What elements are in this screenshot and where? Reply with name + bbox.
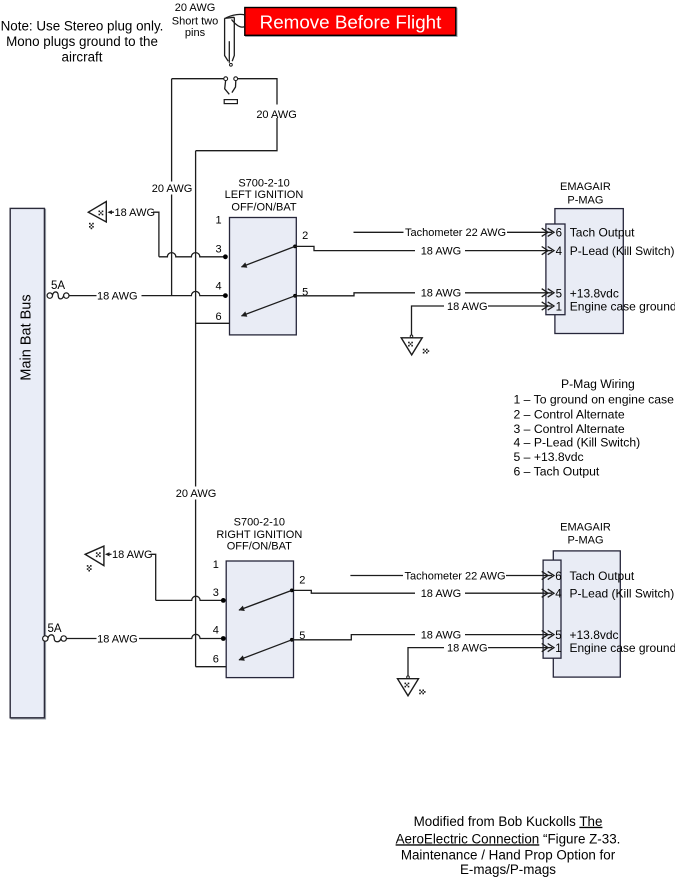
switch S2 pin numbers [213, 559, 306, 665]
svg-text:2: 2 [299, 575, 305, 587]
svg-text:LEFT IGNITION: LEFT IGNITION [225, 189, 304, 201]
svg-text:1: 1 [215, 214, 221, 226]
wire jack-left to vertical A [172, 78, 224, 80]
wire ground to U2 pin1 [408, 648, 444, 676]
U2 pin 1 arrows [542, 644, 554, 652]
svg-text:Tach Output: Tach Output [570, 569, 635, 583]
label 20 AWG (right of jack) [256, 105, 299, 121]
U1 pin 1 arrows [542, 302, 554, 310]
wire to S1 pin 3 with hops over A and B [159, 253, 226, 257]
svg-text:4: 4 [555, 588, 562, 600]
svg-text:18 AWG: 18 AWG [421, 630, 462, 642]
svg-text:Tachometer 22 AWG: Tachometer 22 AWG [405, 570, 506, 582]
svg-text:P-MAG: P-MAG [567, 535, 603, 547]
junction S2 pin 4 [221, 636, 226, 641]
U1 pin 6 arrows [542, 228, 554, 236]
svg-text:S700-2-10: S700-2-10 [238, 178, 289, 190]
wire to S2 pin 3 with hop over B [156, 596, 224, 600]
junction S1 pin 4 [223, 293, 228, 298]
wire vertical A [171, 79, 173, 296]
svg-text:Short two: Short two [172, 15, 218, 27]
Main Bat Bus [10, 208, 44, 717]
svg-text:pins: pins [185, 27, 206, 39]
firewall ground G1 [88, 202, 106, 230]
svg-text:4 – P-Lead (Kill Switch): 4 – P-Lead (Kill Switch) [514, 436, 641, 450]
svg-text:1 – To ground on engine case: 1 – To ground on engine case [514, 392, 675, 406]
svg-text:RIGHT IGNITION: RIGHT IGNITION [216, 529, 302, 541]
svg-text:P-MAG: P-MAG [567, 194, 603, 206]
switch S2 title [216, 516, 302, 552]
svg-text:18 AWG: 18 AWG [421, 588, 462, 600]
svg-text:20 AWG: 20 AWG [152, 183, 193, 195]
svg-text:18 AWG: 18 AWG [112, 549, 153, 561]
wire S2 pin5 to U2 pin5 [292, 635, 415, 640]
note text [1, 19, 164, 65]
wire F1 to S1 pin 4 [69, 295, 97, 297]
svg-text:Modified from Bob Kuckolls The: Modified from Bob Kuckolls The [414, 814, 603, 829]
jack J1 contacts [224, 77, 238, 104]
svg-text:5: 5 [556, 288, 562, 300]
svg-text:6 – Tach Output: 6 – Tach Output [514, 465, 600, 479]
svg-text:OFF/ON/BAT: OFF/ON/BAT [231, 201, 296, 213]
svg-text:Main Bat Bus: Main Bat Bus [18, 294, 34, 380]
svg-text:Note: Use Stereo plug only.: Note: Use Stereo plug only. [1, 19, 164, 34]
junction S2 pin 3 [221, 598, 226, 603]
svg-text:Engine case ground: Engine case ground [570, 299, 675, 313]
svg-text:4: 4 [556, 246, 563, 258]
svg-text:+13.8vdc: +13.8vdc [570, 628, 619, 642]
S1 pole 2-3 [293, 245, 297, 249]
svg-text:E-mags/P-mags: E-mags/P-mags [460, 862, 556, 877]
svg-text:6: 6 [556, 228, 562, 240]
svg-text:6: 6 [215, 311, 221, 323]
P-MAG U1 title [560, 181, 611, 206]
svg-text:aircraft: aircraft [62, 49, 103, 64]
svg-text:Maintenance / Hand Prop Option: Maintenance / Hand Prop Option for [401, 847, 616, 862]
svg-text:5A: 5A [47, 623, 61, 635]
svg-text:1: 1 [556, 301, 562, 313]
U1 pin 5 arrows [542, 289, 554, 297]
P-MAG U1 pin numbers [556, 228, 563, 314]
firewall ground G3 [85, 546, 104, 571]
svg-text:18 AWG: 18 AWG [421, 288, 462, 300]
svg-text:Tachometer 22 AWG: Tachometer 22 AWG [405, 227, 506, 239]
fuse F1 5A [47, 280, 69, 299]
wire hook from G3 to pin 3 (S2) [151, 554, 156, 600]
plug label [172, 2, 218, 39]
tachometer wire U2 pin6 [350, 575, 403, 577]
wire vertical B [195, 151, 197, 667]
svg-text:2 – Control Alternate: 2 – Control Alternate [514, 407, 625, 421]
junction S1 pin 3 [223, 254, 228, 259]
svg-text:5: 5 [302, 286, 308, 298]
svg-text:Engine case ground: Engine case ground [570, 641, 675, 655]
P-MAG U2 title [560, 521, 611, 546]
fuse F2 5A [43, 623, 67, 642]
svg-text:6: 6 [213, 653, 219, 665]
Remove Before Flight banner [245, 8, 456, 36]
svg-text:20 AWG: 20 AWG [175, 2, 216, 14]
tachometer wire U1 pin6 [354, 231, 404, 233]
U2 pin 4 arrows [542, 589, 554, 597]
svg-text:18 AWG: 18 AWG [447, 301, 488, 313]
svg-text:20 AWG: 20 AWG [256, 109, 297, 121]
svg-text:18 AWG: 18 AWG [421, 246, 462, 258]
firewall ground G4 (down) [398, 676, 426, 696]
wire hook from G1 to pin 3 (S1) [153, 212, 159, 257]
wire S1 pin5 to U1 pin5 [295, 293, 415, 296]
wire S2 pin2 to U2 pin4 [294, 590, 416, 593]
svg-text:18 AWG: 18 AWG [97, 633, 138, 645]
P-MAG U2 box [553, 551, 620, 677]
svg-text:EMAGAIR: EMAGAIR [560, 181, 611, 193]
svg-text:OFF/ON/BAT: OFF/ON/BAT [227, 541, 292, 553]
wire ground to U1 pin1 [412, 306, 445, 335]
svg-text:AeroElectric Connection “Figur: AeroElectric Connection “Figure Z-33. [396, 831, 621, 846]
svg-text:4: 4 [213, 624, 219, 636]
svg-text:18 AWG: 18 AWG [97, 291, 138, 303]
svg-text:3: 3 [213, 587, 219, 599]
svg-text:P-Mag Wiring: P-Mag Wiring [561, 377, 635, 391]
lanyard string [226, 14, 245, 17]
svg-text:Tach Output: Tach Output [570, 226, 635, 240]
svg-text:20 AWG: 20 AWG [176, 488, 217, 500]
P-MAG U2 connector [543, 560, 561, 658]
switch S1 pin numbers [215, 214, 308, 323]
svg-text:5A: 5A [51, 280, 65, 292]
U1 pin 4 arrows [542, 247, 554, 255]
wire S2 pin 6 from vertical B [196, 666, 227, 668]
svg-text:5 – +13.8vdc: 5 – +13.8vdc [514, 450, 584, 464]
P-MAG U1 connector [546, 224, 565, 315]
arrow into G3 [105, 552, 110, 556]
switch S1 box [230, 218, 297, 335]
svg-text:EMAGAIR: EMAGAIR [560, 521, 611, 533]
wire S1 pin 6 from vertical B [196, 322, 230, 324]
P-MAG U1 pin labels [570, 226, 675, 314]
P-MAG U2 pin numbers [555, 571, 562, 655]
svg-text:P-Lead (Kill Switch): P-Lead (Kill Switch) [570, 586, 675, 600]
svg-text:5: 5 [555, 630, 561, 642]
wire S1 pin2 to U1 pin4 [295, 246, 415, 250]
svg-text:6: 6 [555, 571, 561, 583]
U2 pin 6 arrows [542, 571, 554, 579]
svg-text:4: 4 [215, 280, 221, 292]
svg-text:18 AWG: 18 AWG [447, 643, 488, 655]
svg-text:+13.8vdc: +13.8vdc [570, 286, 619, 300]
legend P-Mag Wiring [514, 377, 675, 478]
svg-text:3 – Control Alternate: 3 – Control Alternate [514, 422, 625, 436]
P-MAG U1 box [555, 209, 623, 334]
svg-text:Mono plugs ground to the: Mono plugs ground to the [6, 34, 158, 49]
svg-text:S700-2-10: S700-2-10 [234, 516, 285, 528]
stereo plug P1 [225, 17, 235, 66]
svg-text:1: 1 [213, 559, 219, 571]
svg-text:18 AWG: 18 AWG [115, 207, 156, 219]
label 20 AWG on vertical A [151, 182, 194, 196]
switch S2 box [226, 561, 293, 678]
arrow into G1 [107, 210, 112, 214]
svg-text:2: 2 [302, 230, 308, 242]
U2 pin 5 arrows [542, 631, 554, 639]
svg-text:3: 3 [215, 244, 221, 256]
svg-text:Remove Before Flight: Remove Before Flight [260, 11, 442, 32]
switch S1 title [225, 178, 304, 214]
svg-text:1: 1 [555, 643, 561, 655]
firewall ground G2 (down) [401, 335, 429, 355]
S1 pole 5-6 [293, 294, 297, 298]
wire F2 to S2 pin 4 [66, 638, 96, 640]
wire jack-right, down, over to vertical B [196, 79, 277, 151]
label 20 AWG on vertical B [175, 487, 218, 501]
S2 pole 2-3 [290, 589, 294, 593]
svg-text:P-Lead (Kill Switch): P-Lead (Kill Switch) [570, 244, 675, 258]
P-MAG U2 pin labels [570, 569, 675, 655]
S2 pole 5-6 [290, 638, 294, 642]
